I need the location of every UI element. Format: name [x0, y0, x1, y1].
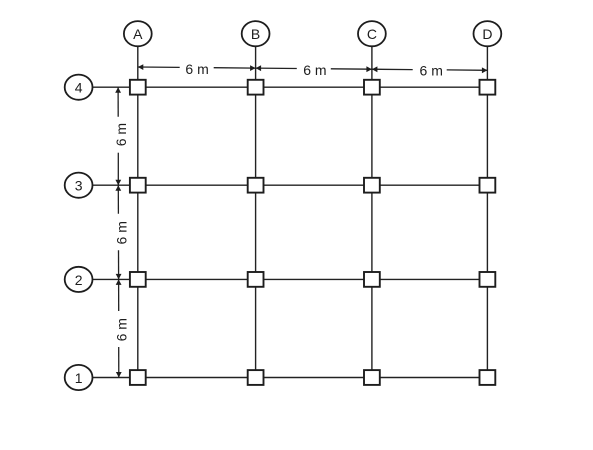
- grid line B (vertical): [255, 46, 257, 377]
- dimension 3-2 (left): [113, 185, 129, 279]
- column A1: [130, 370, 146, 385]
- arrowhead at D pointing right: [482, 67, 488, 73]
- grid line C (vertical): [371, 46, 373, 377]
- column D2: [480, 272, 496, 287]
- column A4: [130, 80, 146, 95]
- column B3: [248, 178, 264, 193]
- grid bubble C: [358, 21, 386, 46]
- svg-text:D: D: [482, 26, 492, 42]
- column B2: [248, 272, 264, 287]
- dim line left part: [138, 66, 180, 68]
- svg-text:6 m: 6 m: [113, 123, 129, 146]
- dimension B-C (top): [256, 62, 372, 78]
- svg-text:6 m: 6 m: [420, 63, 443, 79]
- column A3: [130, 178, 146, 193]
- svg-text:6 m: 6 m: [113, 318, 129, 341]
- dim line top part: [118, 279, 120, 311]
- grid line D (vertical): [486, 46, 488, 377]
- svg-text:C: C: [367, 26, 377, 42]
- dimension 2-1 (left): [113, 279, 129, 377]
- svg-text:A: A: [133, 26, 143, 42]
- grid line 4 (horizontal): [93, 86, 488, 88]
- svg-text:6 m: 6 m: [185, 61, 208, 77]
- grid bubble B: [242, 21, 270, 46]
- dim line right part: [331, 68, 372, 70]
- dim line bottom part: [117, 153, 119, 186]
- column A2: [130, 272, 146, 287]
- arrowhead at 2 pointing down: [116, 274, 122, 280]
- svg-text:6 m: 6 m: [303, 62, 326, 78]
- grid line A (vertical): [137, 46, 139, 377]
- grid line 1 (horizontal): [93, 377, 488, 379]
- arrowhead at B pointing left: [256, 65, 262, 71]
- column D3: [480, 178, 496, 193]
- grid bubble A: [124, 21, 152, 46]
- svg-text:B: B: [251, 26, 260, 42]
- column D1: [480, 370, 496, 385]
- svg-text:1: 1: [75, 370, 83, 386]
- column B4: [248, 80, 264, 95]
- arrowhead at C pointing right: [366, 66, 372, 72]
- dim line left part: [256, 67, 297, 69]
- dim line right part: [447, 69, 488, 71]
- dim line bottom part: [118, 347, 120, 378]
- column C2: [364, 272, 380, 287]
- dim line left part: [372, 68, 413, 70]
- arrowhead at 3 pointing up: [115, 185, 121, 191]
- column C4: [364, 80, 380, 95]
- svg-text:4: 4: [75, 80, 83, 96]
- column C1: [364, 370, 380, 385]
- dimension A-B (top): [138, 61, 256, 77]
- dimension 4-3 (left): [113, 87, 129, 185]
- grid line 2 (horizontal): [93, 278, 488, 280]
- svg-text:2: 2: [75, 272, 83, 288]
- dim line bottom part: [118, 250, 120, 279]
- dimension C-D (top): [372, 63, 488, 79]
- svg-text:6 m: 6 m: [113, 221, 129, 244]
- arrowhead at B pointing right: [250, 65, 256, 71]
- grid line 3 (horizontal): [93, 184, 488, 186]
- arrowhead at 2 pointing up: [116, 279, 122, 285]
- dim line top part: [117, 87, 119, 117]
- arrowhead at 1 pointing down: [116, 372, 122, 378]
- arrowhead at C pointing left: [372, 66, 378, 72]
- grid bubble D: [474, 21, 502, 46]
- dim line top part: [117, 185, 119, 214]
- svg-text:3: 3: [75, 178, 83, 194]
- grid bubble 3: [65, 173, 93, 198]
- arrowhead at A pointing left: [138, 64, 144, 70]
- dim line right part: [214, 67, 256, 69]
- grid bubble 4: [65, 75, 93, 100]
- arrowhead at 3 pointing down: [115, 180, 121, 186]
- column C3: [364, 178, 380, 193]
- column B1: [248, 370, 264, 385]
- column D4: [480, 80, 496, 95]
- grid bubble 1: [65, 365, 93, 390]
- grid bubble 2: [65, 267, 93, 292]
- arrowhead at 4 pointing up: [115, 87, 121, 93]
